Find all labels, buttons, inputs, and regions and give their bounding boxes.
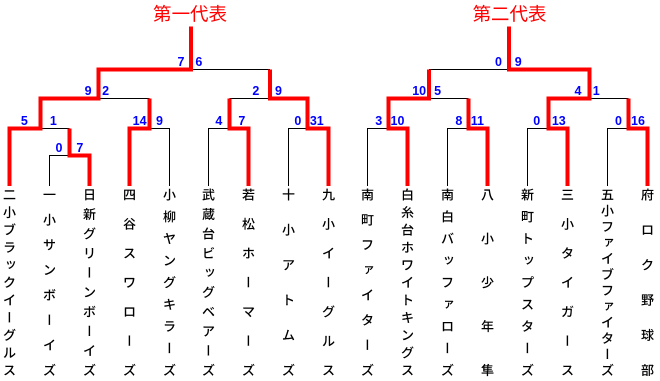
team name 四谷スワローズ <box>124 190 136 376</box>
team name 南町ファイターズ <box>362 189 374 376</box>
team line 新町 + bar 0-13 left arm <box>528 129 549 187</box>
team name 三小タイガース <box>561 190 573 376</box>
svg-text:4: 4 <box>215 114 222 128</box>
team line 一小 + bar 0-7 left arm <box>50 156 70 187</box>
svg-text:6: 6 <box>195 55 202 69</box>
team name 二小ブラックイーグルス <box>3 190 15 375</box>
svg-text:0: 0 <box>533 114 540 128</box>
svg-text:13: 13 <box>552 114 566 128</box>
svg-text:9: 9 <box>515 55 522 69</box>
svg-text:4: 4 <box>575 84 582 98</box>
team name 白糸台ホワイトキングス <box>402 188 414 375</box>
svg-text:9: 9 <box>156 114 163 128</box>
svg-text:9: 9 <box>85 84 92 98</box>
bar 9-2 right arm <box>99 98 150 100</box>
svg-text:7: 7 <box>178 55 185 69</box>
svg-text:11: 11 <box>471 114 484 128</box>
svg-text:1: 1 <box>50 114 57 128</box>
team name 小柳ヤングキラーズ <box>163 189 175 376</box>
svg-text:8: 8 <box>455 114 462 128</box>
team line 五小 + bar 0-16 left arm <box>608 129 629 187</box>
bar 10-5 right arm <box>429 98 469 100</box>
winner path 日新グリーンボーイズ (play-in) <box>70 129 90 187</box>
winner path 九小イーグルス (finalist left) <box>270 70 329 187</box>
team line 南町 + bar 3-10 left arm <box>368 129 389 187</box>
svg-text:1: 1 <box>593 84 600 98</box>
winner path 二小ブラックイーグルス (champion left) <box>10 27 192 187</box>
team line 武蔵台 + bar 4-7 left arm <box>209 129 230 187</box>
team name 九小イーグルス <box>322 189 334 376</box>
svg-text:0: 0 <box>294 114 301 128</box>
svg-text:16: 16 <box>631 114 645 128</box>
title 第一代表 <box>154 5 227 22</box>
team name 若松ホーマーズ <box>242 189 254 376</box>
team name 府ロク野球部 <box>641 189 654 377</box>
svg-text:9: 9 <box>275 84 282 98</box>
team name 武蔵台ビッグベアーズ <box>202 189 214 376</box>
team name 十小アトムズ <box>282 189 294 376</box>
bar 2-9 left arm <box>230 98 271 100</box>
right final bar 0-9 left arm <box>429 69 509 71</box>
svg-text:3: 3 <box>375 114 382 128</box>
team name 南白バッファローズ <box>442 189 454 376</box>
team line 十小 + bar 0-31 left arm <box>289 129 308 187</box>
bar 5-1 right arm <box>41 128 70 130</box>
team name 五小ファイブファイターズ <box>601 190 613 376</box>
winner path 白糸台ホワイトキングス (finalist right) <box>389 70 430 187</box>
team name 新町トップスターズ <box>521 189 534 376</box>
svg-text:31: 31 <box>310 114 324 128</box>
svg-text:2: 2 <box>102 84 109 98</box>
svg-text:10: 10 <box>391 114 405 128</box>
team name 日新グリーンボーイズ <box>83 189 95 375</box>
winner path 八小少年隼 <box>469 99 488 187</box>
svg-text:0: 0 <box>615 114 622 128</box>
title 第二代表 <box>473 5 546 22</box>
svg-text:14: 14 <box>133 114 147 128</box>
team name 一小サンボーイズ <box>43 194 55 376</box>
svg-text:2: 2 <box>252 84 259 98</box>
winner path 府ロク野球部 <box>629 99 648 187</box>
svg-text:7: 7 <box>238 114 245 128</box>
svg-text:0: 0 <box>495 55 502 69</box>
svg-text:0: 0 <box>56 141 63 155</box>
winner path 四谷スワローズ <box>130 99 150 187</box>
svg-text:10: 10 <box>412 84 426 98</box>
winner path 三小タイガース (champion right) <box>509 27 590 187</box>
svg-text:5: 5 <box>21 114 28 128</box>
team name 八小少年隼 <box>481 189 493 376</box>
winner path 若松ホーマーズ <box>230 99 249 187</box>
team line 小柳 + bar 14-9 right arm <box>150 129 170 187</box>
svg-text:5: 5 <box>434 84 441 98</box>
bar 4-1 right arm <box>590 98 629 100</box>
left final bar 7-6 right arm <box>191 69 270 71</box>
team line 南白 + bar 8-11 left arm <box>448 129 469 187</box>
svg-text:7: 7 <box>76 141 83 155</box>
